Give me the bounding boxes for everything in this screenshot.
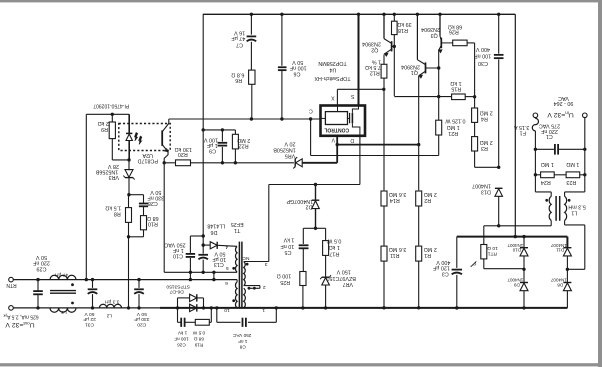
svg-text:7.5 kΩ: 7.5 kΩ [365, 64, 381, 70]
svg-text:R19: R19 [194, 343, 203, 348]
resistor R21 [436, 120, 442, 135]
wire top bus [203, 13, 515, 15]
wire B+ rail [457, 236, 568, 238]
svg-text:16 V: 16 V [234, 29, 245, 35]
vertical net from top bus to secondary snubber [202, 14, 204, 245]
resistor R4 [474, 43, 476, 108]
svg-text:1N5256B: 1N5256B [95, 169, 118, 175]
svg-text:C8: C8 [239, 345, 245, 350]
capacitor C31 [92, 280, 94, 288]
transistor Q2 2N3904 [383, 14, 385, 38]
svg-text:R25: R25 [280, 279, 290, 285]
capacitor C1 [584, 118, 586, 150]
svg-text:R15: R15 [451, 86, 461, 92]
svg-text:2 MΩ: 2 MΩ [480, 109, 493, 115]
svg-text:2 MΩ: 2 MΩ [424, 191, 437, 197]
svg-text:20 V: 20 V [284, 141, 295, 147]
svg-text:PC817D: PC817D [138, 157, 158, 163]
svg-text:5.3 mH: 5.3 mH [568, 204, 585, 210]
svg-text:1 kV: 1 kV [177, 331, 187, 336]
svg-text:1N4007: 1N4007 [550, 278, 566, 283]
svg-text:D2: D2 [306, 203, 313, 209]
inductor L3 coupled [50, 275, 76, 279]
svg-text:10 nF: 10 nF [280, 243, 294, 249]
wire L1 right output to bridge midpoint [564, 220, 566, 225]
svg-text:100 nF: 100 nF [174, 337, 189, 342]
resistor R3 [474, 122, 476, 136]
svg-text:625 mA, 2.5 Apk: 625 mA, 2.5 Apk [3, 314, 38, 320]
svg-text:R23: R23 [566, 179, 576, 185]
svg-text:68 Ω: 68 Ω [193, 337, 204, 342]
svg-text:2 MΩ: 2 MΩ [237, 137, 250, 143]
svg-text:TOPSwitch-HX: TOPSwitch-HX [314, 75, 351, 81]
svg-text:C20: C20 [137, 321, 146, 327]
svg-text:1 nF: 1 nF [238, 339, 248, 344]
resistor R14 [381, 191, 387, 206]
svg-text:2 MΩ: 2 MΩ [424, 246, 437, 252]
zener VR3 1N5256B [128, 160, 130, 170]
svg-text:V: V [331, 137, 335, 143]
svg-text:S: S [350, 93, 354, 99]
svg-text:D6: D6 [211, 229, 218, 235]
svg-text:D10: D10 [512, 248, 521, 253]
svg-text:50 V: 50 V [36, 254, 47, 260]
resistor R20 [164, 162, 175, 164]
svg-text:Q3: Q3 [431, 32, 438, 38]
transistor Q1 2N3904 [416, 14, 418, 59]
inductor L2 [99, 304, 121, 308]
svg-text:0.5 W: 0.5 W [326, 238, 341, 244]
terminal RTN [9, 277, 14, 282]
diode D10 1N4007 [523, 237, 525, 248]
diode D11 1N4007 [566, 237, 568, 248]
svg-text:0.5 W: 0.5 W [192, 331, 205, 336]
resistor R6 [249, 70, 255, 84]
svg-text:150 V: 150 V [336, 269, 350, 275]
svg-text:F1: F1 [520, 129, 526, 135]
svg-text:220 nF: 220 nF [32, 260, 49, 266]
wire primary ground bus [237, 307, 567, 309]
svg-text:47 µF: 47 µF [231, 35, 246, 41]
diode D8 1N4007 [566, 269, 568, 282]
resistor R25 [300, 272, 306, 286]
svg-text:R17: R17 [329, 251, 339, 257]
svg-text:D9: D9 [513, 282, 519, 287]
svg-text:1N4007: 1N4007 [472, 183, 491, 189]
transformer bias winding pins 4-5 [235, 247, 237, 272]
optocoupler U2A PC817D [119, 124, 170, 151]
svg-text:6.8 Ω: 6.8 Ω [231, 71, 244, 77]
svg-text:C28: C28 [148, 200, 158, 206]
wire VR5 to V pin [336, 145, 338, 163]
resistor R17 [316, 227, 326, 229]
diode D9 1N4007 [523, 269, 525, 282]
svg-text:R18: R18 [398, 27, 408, 33]
svg-text:400 V: 400 V [436, 259, 450, 265]
svg-text:68 kΩ: 68 kΩ [448, 23, 462, 29]
resistor R22 [234, 130, 236, 134]
transformer secondary winding pins 6-10 [236, 280, 238, 282]
svg-text:R1: R1 [424, 252, 431, 258]
wire Q1 emitter chain [418, 76, 420, 190]
resistor R11 [381, 246, 387, 261]
svg-text:330 nF: 330 nF [147, 195, 164, 201]
resistor R2 [416, 191, 422, 206]
svg-text:1 kΩ: 1 kΩ [450, 80, 461, 86]
wire feedback return to output minus [128, 237, 130, 308]
diode D13 1N4007 [495, 187, 503, 189]
svg-text:120 µF: 120 µF [432, 265, 450, 271]
wire bus right drop to B+ rail [514, 14, 516, 236]
wire Q2 emitter chain down [383, 89, 385, 190]
svg-text:1 MΩ: 1 MΩ [566, 161, 579, 167]
svg-text:Uin=32 V: Uin=32 V [547, 111, 574, 118]
svg-text:PI-4750-102907: PI-4750-102907 [93, 102, 129, 108]
svg-text:220 nF: 220 nF [540, 128, 557, 134]
svg-text:3.6 MΩ: 3.6 MΩ [389, 246, 407, 252]
svg-text:Q2: Q2 [371, 46, 378, 52]
svg-text:50 V: 50 V [292, 59, 303, 65]
resistor R15 [394, 96, 451, 98]
wire S pin to top bus [358, 14, 360, 105]
wire opto emitter down [164, 152, 168, 273]
svg-text:C7: C7 [236, 42, 243, 48]
svg-text:R20: R20 [178, 151, 188, 157]
capacitor C5 [303, 227, 315, 229]
svg-text:1 µF: 1 µF [206, 142, 218, 148]
svg-text:C1: C1 [546, 133, 553, 139]
zener VR7 BZV97C150 [322, 276, 330, 278]
svg-text:250 VAC: 250 VAC [232, 333, 251, 338]
diode D6 LL4148 [202, 244, 204, 246]
inductor L1 5.3mH common-mode choke [534, 175, 536, 192]
svg-text:CONTROL: CONTROL [324, 126, 349, 132]
svg-text:100 V: 100 V [204, 136, 218, 142]
svg-text:4: 4 [225, 244, 228, 250]
svg-text:50 V: 50 V [150, 189, 161, 195]
svg-text:2N3904: 2N3904 [362, 41, 381, 47]
svg-text:5: 5 [226, 265, 229, 271]
svg-text:L2: L2 [106, 312, 112, 318]
svg-text:1 MΩ: 1 MΩ [447, 124, 460, 130]
wire output top rail [13, 279, 237, 281]
transformer primary winding pins 3-2 [244, 262, 246, 286]
resistor R24 [534, 149, 536, 175]
svg-text:C6: C6 [294, 71, 301, 77]
svg-text:250 VAC: 250 VAC [164, 242, 185, 248]
wire C9/R22 top net [203, 129, 235, 131]
capacitor C7 [250, 14, 252, 34]
svg-text:TOP258MN: TOP258MN [318, 60, 346, 66]
svg-text:R8: R8 [114, 211, 121, 217]
svg-text:2 MΩ: 2 MΩ [480, 139, 493, 145]
svg-text:BZV97C150: BZV97C150 [327, 275, 356, 281]
svg-text:39 kΩ: 39 kΩ [397, 21, 411, 27]
svg-text:C: C [309, 108, 313, 114]
svg-text:R24: R24 [541, 179, 551, 185]
capacitor C8 [216, 308, 218, 322]
svg-text:100 nF: 100 nF [289, 64, 306, 70]
wire snubber return [164, 271, 237, 273]
svg-text:U4: U4 [329, 66, 336, 72]
capacitor C30 [498, 14, 500, 53]
capacitor C26 snubber [177, 308, 179, 322]
svg-text:RT1: RT1 [487, 251, 496, 257]
svg-text:3.6 MΩ: 3.6 MΩ [389, 191, 407, 197]
svg-text:1 MΩ: 1 MΩ [541, 161, 554, 167]
svg-text:VR7: VR7 [343, 281, 354, 287]
svg-text:2 kΩ: 2 kΩ [98, 120, 109, 126]
terminal AC input N [583, 113, 588, 118]
thermistor RT1 [484, 225, 499, 227]
svg-text:1N4007: 1N4007 [550, 243, 566, 248]
svg-text:6: 6 [225, 280, 228, 286]
resistor R19 [195, 319, 209, 325]
svg-text:68 Ω: 68 Ω [147, 215, 159, 221]
resistor R9 [111, 114, 113, 122]
svg-text:1 nF: 1 nF [172, 247, 183, 253]
svg-text:R10: R10 [148, 221, 158, 227]
svg-text:1N5250B: 1N5250B [273, 147, 296, 153]
wire L1 left output to RT1 node [550, 220, 552, 225]
svg-text:1.5 kΩ: 1.5 kΩ [105, 205, 121, 211]
svg-text:0.125 W: 0.125 W [444, 117, 465, 123]
transformer T1 EF25 core [238, 242, 240, 307]
svg-text:R11: R11 [390, 252, 400, 258]
svg-text:28 V: 28 V [108, 163, 119, 169]
svg-text:Uout=32 V: Uout=32 V [5, 321, 35, 328]
svg-text:R26: R26 [449, 29, 459, 35]
diodes D6-D7 STPS3150 output rectifier [176, 306, 179, 309]
svg-text:R9: R9 [101, 126, 108, 132]
capacitor C13 [202, 245, 204, 254]
svg-text:D: D [350, 137, 354, 143]
capacitor C10 [190, 235, 203, 237]
capacitor C28 [129, 194, 144, 196]
svg-text:400 V: 400 V [476, 46, 490, 52]
svg-text:NC: NC [242, 255, 250, 261]
wire output bottom rail [13, 307, 160, 309]
svg-text:1 %: 1 % [372, 58, 381, 64]
svg-text:C30: C30 [478, 60, 488, 66]
svg-text:130 kΩ: 130 kΩ [175, 146, 192, 152]
resistor R23 [554, 174, 566, 176]
svg-text:T1: T1 [234, 227, 240, 233]
wire Q3 emitter / Q1 base column [438, 50, 440, 120]
svg-text:C13: C13 [214, 261, 224, 267]
capacitor C9 [221, 130, 223, 142]
wire V pin [336, 136, 338, 145]
wire feedback tap from output rail [85, 114, 87, 279]
resistor R12 [383, 55, 385, 65]
resistor R10 [141, 216, 147, 230]
diode D2 1N4007GP [315, 185, 317, 201]
fuse F1 [534, 117, 536, 120]
svg-text:D11: D11 [556, 248, 564, 253]
svg-text:R6: R6 [235, 77, 242, 83]
svg-text:U2A: U2A [142, 152, 153, 158]
svg-text:R2: R2 [424, 197, 431, 203]
svg-text:D6-D7: D6-D7 [169, 289, 183, 295]
svg-text:90 - 264: 90 - 264 [554, 100, 574, 106]
svg-text:Q1: Q1 [411, 69, 418, 75]
IC U4 TOPSwitch-HX TOP258MN [321, 106, 366, 136]
svg-text:1N4007GP: 1N4007GP [286, 198, 313, 204]
wire X pin [336, 89, 338, 105]
wire control-pin branch to R21 [310, 119, 312, 156]
svg-text:3.3 µH: 3.3 µH [104, 298, 119, 304]
wire pin 3 riser to D-pin net [268, 185, 270, 262]
svg-text:C9: C9 [209, 147, 216, 153]
svg-text:100 Ω: 100 Ω [277, 273, 292, 279]
capacitor C29 [37, 280, 39, 291]
resistor R8 [128, 195, 130, 208]
svg-text:VAC: VAC [558, 95, 569, 101]
svg-text:C10: C10 [173, 253, 183, 259]
svg-text:D13: D13 [481, 189, 491, 195]
transformer primary winding pins 2-1 [244, 288, 246, 308]
svg-text:1 kV: 1 kV [283, 237, 294, 243]
svg-text:C5: C5 [285, 249, 292, 255]
resistor R26 [453, 40, 467, 46]
capacitor C6 [281, 14, 283, 66]
wire pin 2 tap [244, 285, 260, 287]
svg-text:50 V: 50 V [214, 251, 225, 257]
svg-text:C29: C29 [37, 265, 47, 271]
svg-text:1N4007: 1N4007 [507, 278, 523, 283]
svg-text:R21: R21 [448, 130, 458, 136]
zener VR5 1N5250B [294, 159, 296, 167]
svg-text:R22: R22 [239, 143, 249, 149]
svg-text:47 µH: 47 µH [54, 272, 68, 278]
svg-text:C3: C3 [442, 271, 449, 277]
capacitor C3 bulk [456, 237, 458, 268]
svg-text:L3: L3 [61, 309, 67, 315]
svg-text:D8: D8 [557, 282, 563, 287]
svg-text:VR3: VR3 [109, 174, 120, 180]
wire opto collector to C-pin wire [168, 119, 170, 123]
terminal output plus [9, 306, 14, 311]
svg-text:1N4007: 1N4007 [507, 243, 523, 248]
svg-text:VR5: VR5 [285, 153, 296, 159]
svg-text:C26: C26 [177, 343, 186, 348]
resistor R18 [393, 14, 395, 21]
svg-text:R4: R4 [481, 116, 488, 122]
capacitor C20 [138, 280, 140, 288]
svg-text:10 Ω: 10 Ω [487, 245, 498, 251]
svg-text:2N3904: 2N3904 [401, 63, 420, 69]
svg-text:X: X [331, 94, 335, 100]
svg-text:C31: C31 [85, 321, 94, 327]
svg-text:R12: R12 [370, 70, 380, 76]
svg-text:R14: R14 [390, 197, 400, 203]
svg-text:100 nF: 100 nF [474, 53, 491, 59]
svg-text:2N3904: 2N3904 [421, 26, 440, 32]
svg-text:RTN: RTN [6, 282, 17, 288]
svg-text:EF25: EF25 [231, 221, 244, 227]
svg-text:3: 3 [264, 261, 267, 267]
resistor R1 [416, 246, 422, 261]
wire D pin to transformer [359, 136, 361, 185]
transistor Q3 2N3904 [439, 14, 441, 36]
svg-text:3.15 A: 3.15 A [514, 124, 530, 130]
svg-text:2: 2 [263, 284, 266, 290]
svg-text:L1: L1 [571, 210, 577, 216]
terminal AC input L [533, 113, 538, 118]
wire C-pin net [169, 118, 321, 120]
svg-text:LL4148: LL4148 [207, 223, 225, 229]
svg-text:R3: R3 [481, 145, 488, 151]
svg-text:1: 1 [262, 307, 265, 313]
svg-text:1 kΩ: 1 kΩ [329, 244, 340, 250]
